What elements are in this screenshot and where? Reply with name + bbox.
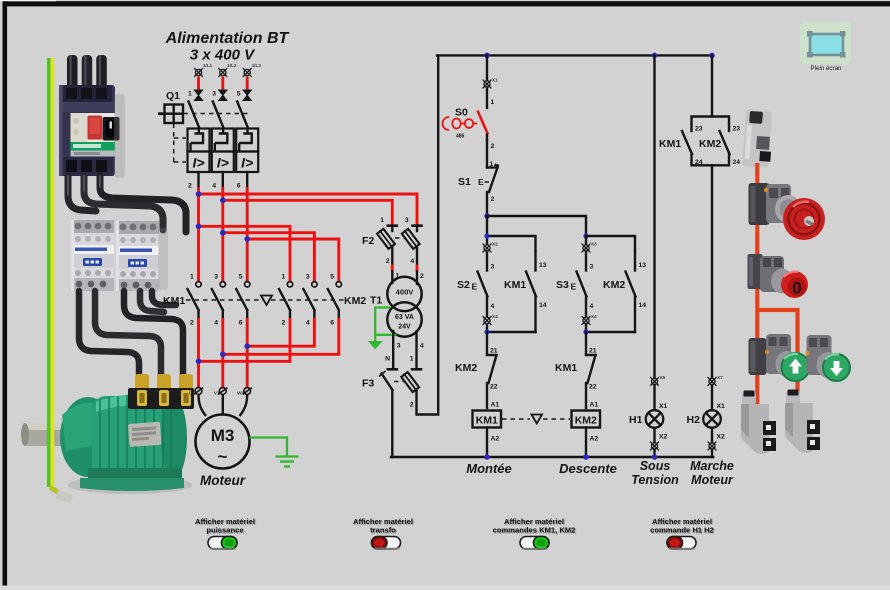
junction montee merge — [484, 329, 489, 334]
svg-text:A2: A2 — [590, 436, 599, 443]
wire KM2 out3 to V1 red — [223, 318, 339, 354]
wire KM2 out1 to U1 red — [199, 318, 291, 361]
svg-text:4: 4 — [491, 303, 495, 310]
junction descente branch — [583, 233, 588, 238]
wire supply L3 red — [246, 77, 249, 90]
svg-text:3: 3 — [306, 274, 310, 281]
svg-text:63 VA: 63 VA — [395, 314, 414, 321]
contactor to motor cables — [79, 291, 183, 378]
svg-text:Montée: Montée — [466, 461, 512, 476]
svg-text:N: N — [385, 356, 390, 363]
Q1 pole 1 magnetic box I> — [188, 152, 210, 173]
svg-text:A1: A1 — [491, 402, 500, 409]
Q1 output leads — [188, 172, 247, 190]
svg-text:5: 5 — [330, 274, 334, 281]
coil KM1 — [473, 402, 502, 458]
wire button red branch — [757, 310, 797, 410]
KM1-KM2 aux parallel bracket bottom — [692, 160, 730, 165]
wire L3 to KM2 pole3 red — [247, 239, 339, 281]
wire to descente branch — [487, 216, 586, 236]
wire descente split — [586, 236, 635, 252]
svg-text:2: 2 — [386, 258, 390, 265]
junction node L2-F2 — [220, 198, 226, 204]
terminal X4 descente — [582, 314, 597, 325]
svg-text:T1: T1 — [370, 295, 382, 307]
F2 fuse pole 3 — [401, 228, 420, 250]
svg-text:1/L3: 1/L3 — [252, 63, 262, 68]
svg-text:commande H1 H2: commande H1 H2 — [650, 526, 714, 535]
wire KM2 out2 to W1 red — [247, 318, 314, 346]
Q1 pole 2 magnetic box I> — [212, 152, 234, 173]
svg-text:X3: X3 — [591, 242, 597, 247]
svg-text:X4: X4 — [591, 314, 597, 319]
svg-text:4: 4 — [410, 258, 414, 265]
svg-text:4: 4 — [212, 183, 216, 190]
toggle switch commandes ON — [520, 537, 549, 551]
contact KM2 aux NO 13-14 — [626, 252, 647, 332]
svg-text:X1: X1 — [717, 403, 726, 410]
svg-text:E: E — [478, 177, 484, 187]
svg-text:3: 3 — [590, 264, 594, 271]
svg-text:13: 13 — [539, 262, 547, 269]
svg-text:1: 1 — [190, 274, 194, 281]
T1 earth arrow — [368, 341, 382, 350]
svg-text:4: 4 — [214, 320, 218, 327]
svg-text:commandes KM1, KM2: commandes KM1, KM2 — [493, 526, 576, 535]
border frame top — [3, 1, 890, 6]
svg-text:X2: X2 — [659, 434, 668, 441]
motor lead W1 — [240, 395, 248, 417]
contact KM2 NC 21-22 montee — [487, 332, 498, 408]
svg-text:0: 0 — [792, 279, 801, 298]
pushbutton S2E NO contact — [478, 252, 495, 333]
svg-text:KM2: KM2 — [603, 279, 625, 291]
lamp H1 — [646, 385, 668, 443]
svg-text:S2: S2 — [457, 279, 470, 291]
svg-text:23: 23 — [695, 126, 703, 133]
svg-text:A2: A2 — [491, 436, 500, 443]
title Alimentation BT — [165, 30, 290, 64]
svg-text:1: 1 — [282, 274, 286, 281]
wire L1 to F2 fuse3 red — [199, 194, 418, 225]
svg-text:M3: M3 — [211, 426, 235, 445]
svg-text:X4: X4 — [492, 314, 498, 319]
toggle switch puissance ON — [208, 537, 237, 551]
junction top rail H2 — [709, 53, 715, 59]
svg-text:14: 14 — [639, 302, 647, 309]
svg-text:14: 14 — [539, 302, 547, 309]
wire H2 drop — [711, 55, 713, 116]
svg-text:1: 1 — [491, 99, 495, 106]
toggle switch transfo OFF — [372, 537, 401, 551]
aux contact block photo top — [742, 110, 772, 168]
svg-text:6: 6 — [330, 320, 334, 327]
motor photo — [21, 374, 194, 494]
F2 terminal lead 3 — [405, 217, 423, 231]
supply terminal XP1 — [194, 63, 213, 77]
toggle label transfo — [353, 517, 413, 535]
wire phase2 vertical red — [221, 187, 224, 281]
breaker photo top cables — [67, 55, 107, 89]
junction descente merge — [583, 329, 588, 334]
wire L2 to F2 fuse1 red — [223, 200, 392, 225]
svg-text:2: 2 — [491, 143, 495, 150]
contact KM1 aux NO 13-14 — [526, 252, 547, 332]
KM1 pole3 contact — [236, 274, 250, 327]
svg-text:24V: 24V — [398, 324, 411, 331]
svg-text:H1: H1 — [629, 414, 643, 426]
svg-text:KM1: KM1 — [659, 138, 681, 150]
svg-text:486: 486 — [456, 134, 465, 140]
junction coil KM1 bottom — [484, 454, 490, 460]
svg-text:21: 21 — [589, 348, 597, 355]
F2 fuse pole 1 — [376, 228, 395, 250]
wire KM1 out1 to U1 red — [197, 318, 200, 388]
Q1 pole 1 blade — [189, 102, 200, 129]
KM1-KM2 mechanism dashed line — [186, 299, 344, 301]
svg-text:S1: S1 — [458, 176, 471, 188]
KM2 pole1 contact — [279, 274, 293, 327]
wire KM1 out2 to V1 red — [221, 318, 224, 388]
wire F2 to T1 primary red segments — [392, 265, 417, 272]
svg-text:X7: X7 — [717, 375, 723, 380]
Q1 pole 3 thermal box — [236, 129, 258, 152]
terminal X1 on S0 branch — [483, 78, 498, 89]
lamp H2 — [703, 385, 725, 443]
svg-text:E: E — [571, 282, 577, 292]
S3E label — [556, 279, 577, 292]
junction node L3-KM2 — [244, 236, 250, 242]
svg-text:1: 1 — [188, 91, 192, 98]
connector plug L2 — [212, 90, 228, 102]
T1 earth wire green — [375, 308, 396, 342]
wire H2 middle — [711, 165, 713, 378]
svg-text:X1: X1 — [492, 78, 498, 83]
svg-text:3: 3 — [397, 343, 401, 350]
border frame left — [3, 1, 8, 585]
svg-text:6: 6 — [237, 183, 241, 190]
svg-text:puissance: puissance — [206, 526, 243, 535]
svg-text:3: 3 — [212, 91, 216, 98]
svg-text:2: 2 — [190, 320, 194, 327]
svg-text:KM1: KM1 — [163, 295, 185, 307]
S0 NC contact blade red — [478, 111, 495, 151]
F3 disconnect blade — [379, 371, 393, 390]
junction node L1-KM2 — [196, 224, 202, 230]
svg-text:24: 24 — [733, 159, 741, 166]
breaker photo GV2 body — [59, 85, 120, 176]
svg-text:2: 2 — [410, 402, 414, 409]
connector plug L1 — [188, 90, 204, 102]
label Sous Tension — [631, 459, 679, 487]
svg-text:Alimentation BT: Alimentation BT — [165, 30, 290, 47]
wire F3 N side to bottom rail — [391, 390, 393, 457]
svg-text:2: 2 — [282, 320, 286, 327]
svg-text:400V: 400V — [396, 288, 415, 297]
wire montee branch split — [487, 216, 536, 252]
up-down buttons photo — [749, 334, 851, 381]
wire S0 to S1 — [487, 140, 494, 168]
wire KM1 out3 to W1 red — [246, 318, 249, 388]
svg-text:KM1: KM1 — [476, 415, 498, 427]
breaker output cables — [68, 176, 186, 232]
motor terminal V1 — [214, 388, 228, 396]
junction S1 out — [484, 213, 490, 219]
S2E label — [457, 279, 478, 292]
svg-text:Moteur: Moteur — [691, 473, 734, 487]
breaker shadow — [114, 94, 125, 178]
svg-text:I>: I> — [217, 155, 229, 171]
breaker Q1 designation box — [158, 105, 183, 124]
toggle label commandes KM1 KM2 — [493, 517, 576, 535]
wire supply L1 red — [197, 77, 200, 90]
svg-text:KM1: KM1 — [555, 362, 577, 374]
junction node W1 — [244, 343, 250, 349]
svg-text:3 x 400 V: 3 x 400 V — [190, 47, 256, 64]
svg-text:21: 21 — [490, 348, 498, 355]
junction node L2-KM2 — [220, 230, 226, 236]
Q1 pole 3 magnetic box I> — [236, 152, 258, 173]
toggle label commande H1 H2 — [650, 517, 714, 535]
toggle label puissance — [195, 517, 255, 535]
svg-text:X5: X5 — [660, 375, 666, 380]
svg-text:Descente: Descente — [559, 461, 617, 476]
svg-text:3: 3 — [491, 264, 495, 271]
mechanism triangle symbol — [261, 296, 272, 306]
F3 striker dashed link — [394, 381, 404, 383]
svg-text:H2: H2 — [687, 414, 701, 426]
wire phase3 vertical red — [246, 187, 249, 281]
Q1 mechanism dashed link — [174, 114, 251, 163]
motor lead V1 — [222, 395, 224, 416]
svg-text:1: 1 — [410, 356, 414, 363]
svg-text:Tension: Tension — [631, 473, 679, 487]
svg-text:1/L2: 1/L2 — [227, 63, 237, 68]
svg-text:4: 4 — [420, 343, 424, 350]
supply terminal XP2 — [218, 63, 237, 77]
svg-text:A1: A1 — [590, 402, 599, 409]
svg-text:KM2: KM2 — [699, 138, 721, 150]
svg-text:X1: X1 — [659, 403, 668, 410]
contact KM2 aux NO 23-24 — [720, 124, 741, 166]
KM1 pole2 contact — [212, 274, 226, 327]
ground symbol motor — [276, 457, 299, 467]
svg-text:KM2: KM2 — [344, 295, 366, 307]
svg-text:1/L1: 1/L1 — [203, 63, 213, 68]
bottom margin strip — [0, 586, 890, 590]
motor terminal U1 — [189, 388, 203, 396]
contactor KM1 photo — [71, 220, 114, 291]
control top rail — [437, 54, 713, 56]
label Marche Moteur — [690, 459, 734, 487]
coil KM2 — [572, 402, 601, 458]
contactor KM2 photo — [116, 221, 159, 291]
terminal X4 montee — [483, 314, 498, 325]
svg-text:S3: S3 — [556, 279, 569, 291]
fullscreen button Plein ecran — [800, 22, 851, 72]
emergency mushroom button photo — [749, 183, 826, 240]
KM2 pole2 contact — [303, 274, 317, 327]
svg-text:Moteur: Moteur — [200, 473, 246, 488]
svg-text:3: 3 — [405, 217, 409, 224]
motor lead U1 — [199, 395, 207, 417]
wire S0 drop — [486, 55, 488, 80]
contactor shadow — [158, 228, 168, 290]
control bottom rail — [391, 456, 713, 458]
terminal X8 H2 bottom — [708, 442, 717, 457]
S1 NC contact blade — [487, 165, 499, 217]
supply terminal XP3 — [243, 63, 262, 77]
wire button red main — [755, 163, 759, 410]
svg-text:Q1: Q1 — [166, 90, 180, 102]
wire montee merge — [487, 331, 536, 333]
svg-text:transfo: transfo — [370, 526, 396, 535]
F2 output lead 2 — [386, 247, 393, 265]
svg-text:E: E — [472, 282, 478, 292]
svg-text:Sous: Sous — [640, 459, 671, 473]
white corner sliver — [0, 0, 56, 1]
svg-text:KM2: KM2 — [575, 415, 597, 427]
svg-text:2: 2 — [420, 273, 424, 280]
svg-text:X2: X2 — [717, 434, 726, 441]
svg-text:6: 6 — [239, 320, 243, 327]
contact block photo bottom left — [741, 391, 776, 455]
svg-text:S0: S0 — [455, 107, 468, 119]
T1 secondary leads — [385, 331, 424, 369]
svg-text:F3: F3 — [362, 378, 374, 390]
wire phase1 vertical red — [197, 187, 200, 281]
svg-text:4: 4 — [306, 320, 310, 327]
svg-text:23: 23 — [733, 126, 741, 133]
transformer T1 secondary circle 63VA 24V — [387, 302, 421, 336]
Q1 pole 2 blade — [213, 102, 224, 129]
earth wire green-yellow — [49, 58, 73, 504]
wire L2 to KM2 pole2 red — [223, 233, 315, 281]
svg-text:F2: F2 — [362, 235, 374, 247]
terminal X2 on S2 branch — [483, 242, 498, 253]
wire descente merge — [586, 331, 635, 333]
junction top rail S0 — [484, 53, 490, 59]
svg-text:2: 2 — [491, 196, 495, 203]
svg-text:I>: I> — [192, 155, 204, 171]
contact KM1 aux NO 23-24 — [682, 124, 703, 166]
motor M3 circle — [196, 415, 250, 469]
F2 terminal lead 1 — [380, 217, 398, 231]
svg-text:X2: X2 — [492, 242, 498, 247]
wire H1 drop — [653, 55, 655, 378]
F2 output lead 4 — [410, 247, 417, 265]
svg-text:4: 4 — [590, 303, 594, 310]
T1 primary leads — [392, 272, 424, 285]
svg-text:2: 2 — [188, 183, 192, 190]
wire supply L2 red — [221, 77, 224, 90]
wire L1 to KM2 pole1 red — [199, 226, 291, 281]
KM2 pole3 contact — [328, 274, 342, 327]
terminal X3 on S3 branch — [582, 242, 597, 253]
S0 upper lead — [487, 88, 495, 109]
svg-text:Plein écran: Plein écran — [811, 65, 843, 72]
svg-text:22: 22 — [589, 384, 597, 391]
Q1 pole 2 thermal box — [212, 129, 234, 152]
toggle switch H1 H2 OFF — [667, 537, 696, 551]
svg-text:~: ~ — [218, 447, 228, 466]
terminal X5 H1 top — [650, 375, 665, 386]
terminal X6 H1 bottom — [650, 442, 659, 457]
motor terminal W1 — [237, 388, 252, 396]
Q1 pole 1 thermal box — [188, 129, 210, 152]
KM1 pole1 contact — [188, 274, 202, 327]
F3 terminal ticks — [387, 368, 423, 371]
svg-text:1: 1 — [380, 217, 384, 224]
KM1-KM2 aux parallel bracket top — [692, 117, 730, 125]
S1 E symbol — [478, 177, 489, 187]
Q1 pole 3 blade — [237, 102, 248, 129]
junction top rail H1 — [652, 53, 658, 59]
terminal X7 H2 top — [708, 375, 723, 386]
stop button 0 photo — [748, 254, 809, 298]
svg-text:Marche: Marche — [690, 459, 734, 473]
junction montee branch — [484, 233, 489, 238]
connector plug L3 — [237, 90, 253, 102]
svg-text:3: 3 — [214, 274, 218, 281]
pushbutton S3E NO contact — [577, 252, 594, 333]
svg-text:KM1: KM1 — [504, 279, 526, 291]
coil interlock dashed link — [502, 415, 570, 424]
junction node U1 — [196, 359, 202, 365]
S0 mushroom head symbol red — [443, 117, 477, 130]
wire F3 fuse out to control rail — [410, 56, 438, 415]
F3 fuse pole — [401, 371, 420, 393]
svg-text:I>: I> — [241, 155, 253, 171]
svg-text:5: 5 — [239, 274, 243, 281]
F2 striker dashed link — [395, 237, 406, 239]
contact block photo bottom right — [785, 390, 820, 454]
junction node L1-F2 — [196, 191, 202, 197]
transformer T1 primary circle 400V — [387, 277, 421, 311]
junction H1 bottom rail — [652, 454, 658, 460]
svg-text:5: 5 — [237, 91, 241, 98]
wire motor earth green — [250, 438, 288, 457]
svg-text:KM2: KM2 — [455, 362, 477, 374]
junction node V1 — [220, 352, 226, 358]
junction coil KM2 bottom — [583, 454, 589, 460]
svg-text:13: 13 — [639, 262, 647, 269]
svg-text:22: 22 — [490, 384, 498, 391]
contact KM1 NC 21-22 descente — [586, 332, 597, 408]
